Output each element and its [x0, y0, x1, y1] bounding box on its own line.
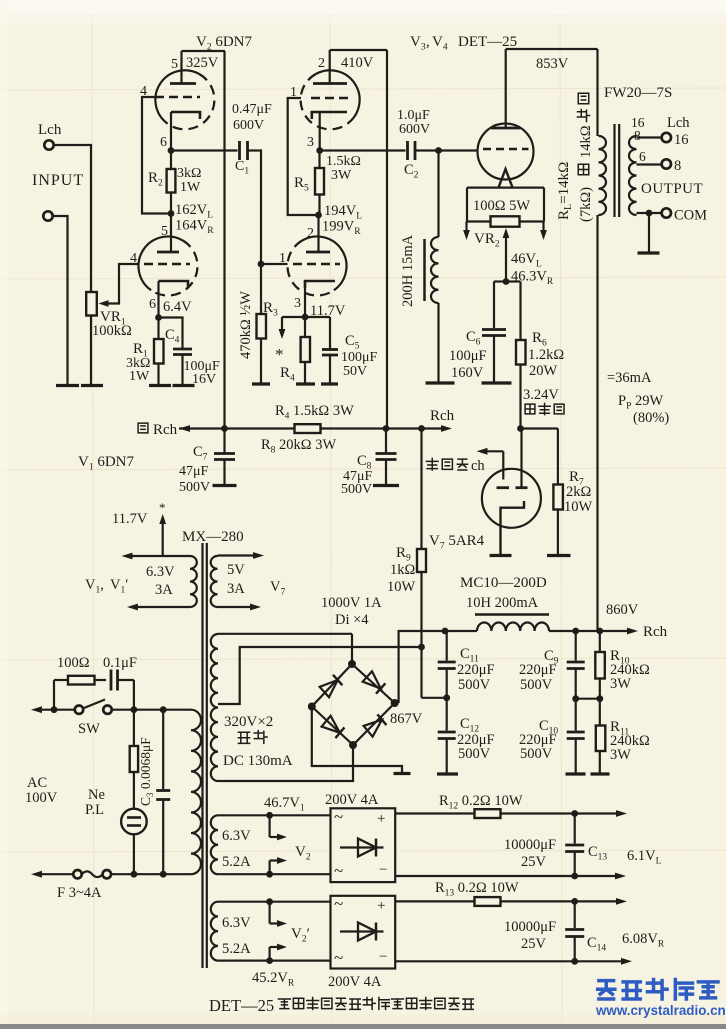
- svg-text:500V: 500V: [520, 677, 553, 693]
- node R6 bottom: [517, 425, 524, 432]
- svg-text:1.5kΩ: 1.5kΩ: [326, 154, 361, 169]
- V3a cathode: [312, 112, 347, 119]
- node heater1 top: [266, 812, 273, 819]
- node C13 bottom: [571, 873, 578, 880]
- node C14 bottom: [571, 958, 578, 965]
- node V3a cathode: [316, 147, 323, 154]
- wire VR1 wiper from grid: [103, 264, 139, 304]
- svg-text:200H 15mA: 200H 15mA: [400, 234, 416, 307]
- tap 5V top arrow: [218, 554, 256, 556]
- svg-text:853V: 853V: [536, 56, 569, 72]
- V2a grid (dashed): [155, 96, 200, 99]
- capacitor C5: [322, 348, 338, 351]
- svg-text:100kΩ: 100kΩ: [92, 323, 132, 339]
- ground VR1: [81, 384, 103, 387]
- wire primary bottom down: [596, 215, 598, 630]
- resistor R12: [475, 809, 501, 818]
- wire input2 to ground: [53, 216, 68, 384]
- wire B+ vertical stage2: [386, 50, 388, 429]
- wire C5 top: [329, 317, 331, 350]
- diode D1 (top-left): [320, 680, 338, 697]
- svg-text:Di ×4: Di ×4: [335, 612, 369, 628]
- tube V1a envelope: [138, 237, 182, 291]
- tap heater2 top: [218, 901, 331, 903]
- svg-text:1.2kΩ: 1.2kΩ: [528, 347, 564, 363]
- label jie Rch: [138, 423, 148, 433]
- wire R4 bottom: [304, 362, 306, 383]
- OPT primary coil: [599, 136, 607, 215]
- terminal COM: [662, 208, 671, 217]
- svg-text:11.7V: 11.7V: [112, 511, 148, 527]
- svg-text:Rch: Rch: [643, 624, 668, 640]
- svg-text:5: 5: [171, 57, 178, 72]
- wire to VR2 left: [467, 220, 491, 222]
- node C9-C10 mid: [572, 695, 579, 702]
- capacitor C1: [238, 141, 241, 160]
- V2a cathode: [171, 112, 200, 119]
- winding 5V 3A: [211, 556, 218, 607]
- heater arrow V2b: [269, 861, 271, 875]
- wire after fuse: [111, 873, 191, 875]
- rail arrow to Rch (left): [179, 425, 190, 432]
- wire R5 bottom: [318, 195, 320, 216]
- svg-text:160V: 160V: [451, 365, 484, 381]
- tap 320V top: [218, 633, 352, 635]
- V3a plate: [313, 82, 347, 85]
- wire R2 top: [170, 151, 172, 170]
- wire cathode node left-right: [282, 316, 330, 318]
- winding 320Vx2: [211, 634, 218, 781]
- wire right plate up: [520, 429, 522, 488]
- svg-text:3W: 3W: [331, 168, 352, 183]
- wire R9 top: [420, 429, 422, 550]
- node rail C8: [383, 425, 390, 432]
- svg-text:~: ~: [334, 894, 343, 913]
- node 194V junction: [315, 212, 322, 219]
- node C13 top: [571, 810, 578, 817]
- node R9 center tap: [418, 644, 425, 651]
- svg-text:10W: 10W: [387, 579, 416, 595]
- wire C4 bottom: [181, 355, 183, 385]
- caption CJK: [278, 999, 290, 1009]
- node R10-R11 mid: [596, 695, 603, 702]
- svg-text:3A: 3A: [227, 581, 245, 597]
- arrow down right: [542, 222, 544, 234]
- node V3b cathode: [302, 314, 309, 321]
- ground C6: [482, 381, 512, 384]
- wire mid junction: [576, 698, 600, 700]
- svg-text:,: ,: [426, 34, 430, 50]
- V7 plate left: [497, 486, 510, 489]
- V3a grid (dashed): [311, 97, 350, 100]
- adjust arrow R4: [281, 317, 283, 331]
- svg-text:0.1μF: 0.1μF: [103, 655, 137, 671]
- svg-text:+: +: [377, 898, 385, 914]
- resistor R9: [417, 549, 426, 572]
- arrow out1-: [615, 873, 626, 880]
- capacitor C12: [446, 698, 448, 731]
- svg-text:RL=14kΩ: RL=14kΩ: [556, 162, 574, 220]
- svg-text:25V: 25V: [521, 854, 547, 870]
- node cathode bias: [503, 278, 510, 285]
- capacitor 0.1uF snubber: [110, 670, 113, 691]
- wire R7 bottom: [557, 510, 559, 555]
- svg-text:PP 29W: PP 29W: [618, 393, 664, 412]
- capacitor C3: [156, 789, 170, 792]
- resistor R7: [553, 485, 563, 510]
- wire R6 node to R7: [521, 427, 558, 429]
- OPT secondary bottom: [637, 212, 663, 214]
- snubber riser left: [53, 680, 55, 710]
- svg-text:220μF: 220μF: [519, 662, 557, 678]
- ground C7: [213, 484, 237, 487]
- node bridge right: [391, 699, 399, 707]
- svg-text:MC10—200D: MC10—200D: [460, 575, 547, 591]
- svg-text:(7kΩ): (7kΩ): [578, 187, 594, 222]
- wire box2 + out: [395, 900, 474, 902]
- svg-text:3W: 3W: [610, 676, 631, 692]
- svg-text:SW: SW: [78, 721, 100, 737]
- wire choke bottom: [437, 303, 439, 382]
- ground C8: [373, 484, 399, 487]
- svg-text:~: ~: [334, 861, 343, 880]
- capacitor C7: [223, 429, 225, 453]
- wire neon branch upper: [133, 710, 135, 746]
- node C14 top: [571, 898, 578, 905]
- capacitor C9: [575, 631, 577, 661]
- capacitor C13: [574, 814, 576, 844]
- wire R3 top: [260, 264, 262, 314]
- svg-text:Ne: Ne: [88, 787, 105, 803]
- wire input1 to VR1 top: [54, 145, 92, 292]
- V1a grid (dashed): [144, 263, 190, 266]
- svg-text:50V: 50V: [343, 364, 367, 379]
- wire to C4: [159, 318, 183, 349]
- node B+ rail: [596, 628, 603, 635]
- svg-text:200V 4A: 200V 4A: [325, 792, 379, 808]
- ground C12: [437, 772, 458, 775]
- wire V3b plate up: [317, 215, 319, 252]
- svg-text:5.2A: 5.2A: [222, 854, 251, 870]
- wire node to C2: [320, 149, 406, 151]
- svg-text:3A: 3A: [155, 582, 173, 598]
- wire V1a cathode down: [157, 281, 159, 318]
- svg-text:25V: 25V: [521, 936, 547, 952]
- V1a plate: [157, 251, 179, 254]
- ground input: [56, 384, 79, 387]
- svg-text:Lch: Lch: [667, 115, 690, 131]
- ground R4: [296, 382, 315, 385]
- wire bridge AC1: [351, 634, 353, 664]
- svg-text:14kΩ: 14kΩ: [578, 125, 594, 158]
- box1 diode: [340, 846, 384, 848]
- svg-text:16: 16: [674, 132, 689, 148]
- svg-text:V1′: V1′: [110, 577, 128, 596]
- switch SW: [75, 706, 83, 714]
- svg-text:500V: 500V: [458, 677, 491, 693]
- svg-text:500V: 500V: [179, 480, 210, 495]
- svg-text:47μF: 47μF: [179, 464, 209, 479]
- rotated CJK shiyong: [578, 93, 589, 104]
- svg-text:~: ~: [334, 807, 343, 826]
- node heater1 bottom: [266, 871, 273, 878]
- tap heater2 bottom: [218, 959, 331, 961]
- snubber riser right: [133, 680, 135, 710]
- svg-text:FW20—7S: FW20—7S: [604, 85, 672, 101]
- svg-text:867V: 867V: [390, 711, 423, 727]
- svg-text:(80%): (80%): [633, 410, 669, 426]
- svg-text:600V: 600V: [233, 118, 264, 133]
- rail arrow Rch right: [441, 425, 452, 432]
- wire V3a grid left-down: [288, 98, 319, 215]
- svg-text:3: 3: [294, 296, 301, 311]
- resistor R3: [257, 314, 267, 339]
- svg-text:3: 3: [307, 135, 314, 150]
- svg-text:6.3V: 6.3V: [146, 564, 175, 580]
- resistor R11: [596, 726, 606, 752]
- capacitor C10: [575, 699, 577, 731]
- svg-text:100μF: 100μF: [341, 350, 378, 365]
- wire node to C6: [494, 280, 506, 282]
- wire V3b cathode down: [304, 281, 306, 317]
- svg-text:20W: 20W: [529, 363, 558, 379]
- node bridge left: [308, 703, 316, 711]
- top rail 325V: [182, 50, 226, 52]
- svg-text:100Ω: 100Ω: [57, 655, 90, 671]
- svg-text:10H 200mA: 10H 200mA: [466, 595, 539, 611]
- node Lch input terminal 2: [43, 211, 52, 220]
- tube V2a envelope: [155, 70, 199, 123]
- svg-text:6.3V: 6.3V: [222, 828, 251, 844]
- wire C5 bottom: [329, 355, 331, 383]
- resistor R2: [167, 169, 176, 193]
- svg-text:−: −: [379, 949, 387, 965]
- svg-text:Rch: Rch: [153, 422, 178, 438]
- svg-text:10000μF: 10000μF: [504, 919, 556, 935]
- node COM junction: [646, 210, 653, 217]
- rectifier box 1: [331, 808, 396, 882]
- terminal 8: [662, 159, 671, 168]
- winding 6.3V 5.2A #1: [211, 815, 218, 874]
- wire V3a plate up: [329, 50, 331, 84]
- svg-text:6: 6: [160, 135, 167, 150]
- wire after SW: [112, 709, 191, 711]
- tap 5V bottom arrow: [218, 606, 253, 608]
- heater arrow V2a: [269, 815, 271, 837]
- svg-text:6.3V: 6.3V: [222, 915, 251, 931]
- resistor R4: [301, 337, 310, 362]
- capacitor C8: [385, 429, 387, 453]
- svg-text:MX—280: MX—280: [182, 529, 244, 545]
- svg-text:DC 130mA: DC 130mA: [223, 753, 293, 769]
- box2 diode: [340, 930, 384, 932]
- rotated CJK zuo: [578, 164, 589, 175]
- wire bridge DC- to ground: [312, 707, 402, 773]
- node C11-C12 mid: [443, 694, 450, 701]
- potentiometer VR1: [86, 292, 97, 316]
- choke MC10-200D coil: [477, 622, 549, 631]
- svg-text:6.4V: 6.4V: [163, 299, 192, 315]
- capacitor C11: [446, 631, 448, 661]
- svg-text:8: 8: [634, 128, 641, 143]
- svg-text:V1 6DN7: V1 6DN7: [78, 454, 135, 473]
- label dianqiao (CJK): [238, 732, 249, 743]
- V7 filament: [501, 501, 525, 554]
- V7 plate right: [516, 486, 528, 489]
- arrow out2+: [616, 898, 627, 905]
- node neon bottom: [131, 871, 138, 878]
- ground bridge: [394, 772, 411, 775]
- svg-text:500V: 500V: [520, 746, 553, 762]
- wire V2a grid to lower plate node: [142, 97, 171, 214]
- svg-text:200V 4A: 200V 4A: [328, 974, 382, 990]
- wire R1 top: [157, 318, 159, 340]
- MX core: [201, 543, 203, 968]
- tap 6.3V bottom arrow: [136, 606, 190, 608]
- node rail R9: [418, 425, 425, 432]
- svg-text:*: *: [159, 500, 166, 515]
- wire R4 top: [304, 317, 306, 337]
- wire R13 to arrow: [501, 900, 618, 902]
- wire R10 bottom: [599, 679, 601, 699]
- output top rail 853V: [506, 48, 598, 50]
- winding 6.3V 5.2A #2: [211, 902, 218, 961]
- wire grid to tube: [439, 149, 479, 151]
- wire filament bus: [467, 187, 544, 189]
- wire V3b grid to node: [261, 263, 288, 265]
- svg-text:1.0μF: 1.0μF: [397, 108, 430, 123]
- svg-text:46.7V1: 46.7V1: [264, 795, 305, 814]
- ground R11: [591, 772, 610, 775]
- svg-text:V2 6DN7: V2 6DN7: [196, 34, 253, 53]
- svg-text:DET—25: DET—25: [209, 996, 274, 1015]
- tap heater1 bottom: [218, 873, 331, 875]
- wire rail down to primary: [596, 49, 598, 136]
- resistor R10: [595, 652, 605, 679]
- wire neon bottom: [133, 834, 135, 874]
- svg-text:3W: 3W: [610, 747, 631, 763]
- tube V3b envelope: [302, 237, 346, 291]
- wire V2a plate to top rail: [180, 51, 182, 84]
- svg-text:1W: 1W: [180, 180, 201, 195]
- VR2 wiper arrow: [505, 236, 507, 282]
- heater arrow V2p a: [269, 902, 271, 924]
- ground R1: [149, 384, 171, 387]
- tap 320V center: [218, 647, 422, 704]
- wire R1 bottom: [157, 364, 159, 385]
- svg-text:Lch: Lch: [38, 122, 62, 138]
- rectifier box 2: [331, 896, 396, 969]
- svg-text:www.crystalradio.cn: www.crystalradio.cn: [595, 1003, 726, 1018]
- resistor 100Ohm snubber: [54, 679, 68, 681]
- node snubber left: [51, 706, 58, 713]
- wire R7 top: [557, 429, 559, 485]
- wire COM to ground: [648, 213, 650, 252]
- svg-text:860V: 860V: [606, 602, 639, 618]
- svg-text:V7 5AR4: V7 5AR4: [429, 533, 485, 552]
- svg-text:10W: 10W: [564, 499, 593, 515]
- diode D4 (bottom-right): [364, 720, 382, 737]
- node C3 branch: [160, 706, 167, 713]
- svg-text:+: +: [377, 811, 385, 827]
- svg-text:5.2A: 5.2A: [222, 941, 251, 957]
- ground choke: [426, 381, 455, 384]
- svg-text:470kΩ ½W: 470kΩ ½W: [238, 291, 254, 359]
- rail right segment: [321, 427, 444, 429]
- AC line1: [40, 709, 75, 711]
- wire VR1 to ground: [90, 316, 92, 385]
- svg-text:~: ~: [334, 948, 343, 967]
- node heater2 top: [266, 898, 273, 905]
- AC line2: [40, 873, 74, 875]
- ground COM: [638, 251, 660, 254]
- wire V3a cathode down: [319, 112, 321, 151]
- wire bridge+ riser: [399, 631, 477, 703]
- terminal filament left: [490, 554, 512, 557]
- fuse F: [73, 870, 81, 878]
- node C3 bottom: [160, 871, 167, 878]
- V3b cathode: [305, 281, 335, 288]
- OPT secondary coil: [629, 136, 637, 215]
- wire R6 top: [519, 282, 521, 341]
- resistor R5: [315, 168, 324, 195]
- ground R3: [252, 382, 270, 385]
- wire bus right down: [543, 188, 545, 222]
- watermark kuangshi (CJK): [598, 981, 615, 999]
- wire to VR2 right: [520, 220, 545, 222]
- wire R9 bottom: [420, 572, 422, 698]
- wire box2 - out: [395, 960, 622, 962]
- svg-text:4: 4: [140, 84, 147, 99]
- V1a cathode: [159, 281, 189, 288]
- wire choke to Rch arrow: [549, 630, 629, 632]
- node V2a cathode junction: [168, 147, 175, 154]
- svg-text:100Ω 5W: 100Ω 5W: [473, 198, 530, 214]
- node C9 top: [572, 628, 579, 635]
- arrow down left: [465, 222, 467, 234]
- ground C5: [321, 382, 338, 385]
- svg-text:COM: COM: [674, 208, 707, 224]
- svg-text:1000V 1A: 1000V 1A: [321, 595, 382, 611]
- winding primary 100V: [191, 710, 201, 875]
- svg-text:1kΩ: 1kΩ: [390, 562, 416, 578]
- bridge diamond: [312, 664, 395, 745]
- wire node to C1: [171, 149, 238, 151]
- potentiometer VR2 100 Ohm 5W: [491, 216, 520, 226]
- svg-text:16V: 16V: [192, 372, 216, 387]
- wire C2 to output grid node: [415, 149, 439, 151]
- svg-text:410V: 410V: [341, 55, 374, 71]
- svg-text:1W: 1W: [129, 369, 150, 384]
- wire bridge AC2 down: [218, 745, 353, 781]
- svg-text:325V: 325V: [186, 55, 219, 71]
- wire V2a cathode down: [170, 112, 172, 151]
- node Lch input terminal 1: [44, 140, 53, 149]
- OPT core: [613, 124, 615, 217]
- svg-text:F 3~4A: F 3~4A: [57, 885, 102, 901]
- svg-text:−: −: [379, 862, 387, 878]
- svg-text:500V: 500V: [341, 482, 372, 497]
- ground C10: [566, 772, 586, 775]
- label jie qi ta ch: [426, 458, 438, 470]
- node bridge top: [348, 660, 356, 668]
- svg-text:5V: 5V: [227, 562, 245, 578]
- svg-text:AC: AC: [27, 775, 47, 791]
- arrow out2-: [621, 958, 632, 965]
- wire R11 bottom: [599, 751, 601, 773]
- diode D2 (top-right): [363, 671, 381, 688]
- svg-text:OUTPUT: OUTPUT: [641, 181, 703, 197]
